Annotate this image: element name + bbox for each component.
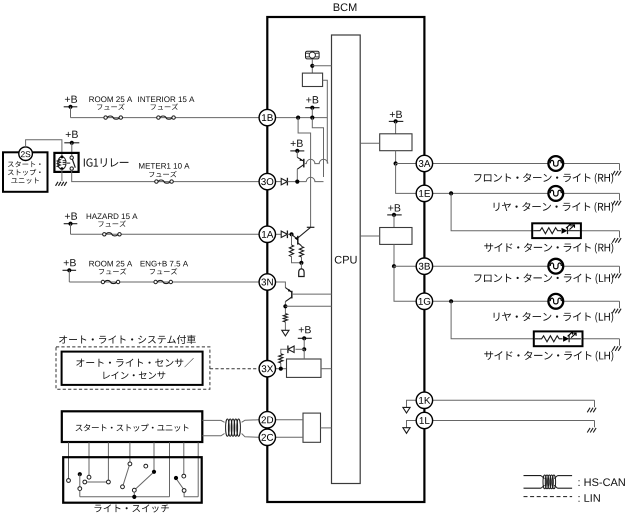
label rear turn RH (494, 202, 614, 213)
label fuse 3O (149, 171, 176, 177)
IG1 relay box (54, 153, 78, 172)
buzzer / sounder (299, 263, 304, 277)
label auto-light system (59, 335, 196, 344)
junction 1B-b (310, 116, 314, 120)
wire to 3O corner (312, 118, 323, 177)
label fuse 3N-1 (99, 268, 126, 274)
switch contact b1 (87, 475, 91, 479)
turn indicator icon (306, 51, 320, 59)
wire U5 to 3A (394, 151, 417, 166)
wire U6 to 3B (392, 244, 416, 268)
rear turn light RH (433, 186, 621, 205)
transistor Q1 (PNP) (297, 151, 304, 182)
auto-light sensor dashed box (56, 347, 210, 389)
switch contact a1 (67, 479, 71, 483)
junction R1-R2 (299, 261, 303, 265)
wire 1K right (433, 400, 596, 412)
junction 3X-a (296, 347, 307, 351)
connector 3B (416, 258, 432, 274)
connector 3X (259, 361, 275, 377)
power feed +B (row 1B) (64, 96, 78, 118)
driver block U2 (302, 73, 322, 86)
fuse METER1 10 A (139, 163, 189, 183)
fuse INTERIOR 15 A (138, 96, 194, 119)
wire CPU to U6 (360, 235, 380, 237)
wire 2C twisted pair (202, 434, 259, 438)
switch blade f (132, 470, 156, 497)
resistor R4 (279, 354, 283, 363)
switch pole b (closed) (78, 472, 82, 497)
connector 1E (416, 185, 432, 201)
auto-light sensor box (62, 352, 203, 385)
resistor R2 (299, 246, 303, 263)
CAN transceiver block U4 (303, 413, 321, 442)
wire to Q2 collector (298, 118, 311, 228)
switch blade g (174, 476, 186, 493)
wire row 3N internal (276, 282, 286, 288)
wire row 3X internal (276, 367, 287, 371)
connector 3A (416, 155, 432, 171)
wire U6 to 1G (394, 266, 416, 301)
wire 1L right (433, 421, 596, 433)
switch link c (83, 480, 110, 484)
switch contact g1 (182, 474, 186, 478)
wire relay to METER1 fuse (72, 170, 259, 181)
wire R4 to 3X (280, 363, 282, 369)
BCM module box (267, 3, 424, 502)
connector 1G (416, 293, 432, 309)
transistor Q2 (NPN) (292, 227, 315, 246)
side turn light LH (451, 301, 621, 351)
ground (IG1 relay coil) (56, 169, 67, 186)
wire row 1B internal (276, 117, 328, 119)
driver block U5 (380, 134, 412, 151)
wire CPU to U5 (360, 142, 380, 144)
signal ground 1K (403, 400, 416, 413)
front turn light RH (433, 156, 621, 175)
node under icon (310, 64, 331, 68)
connector 1K (416, 392, 432, 408)
fuse ROOM 25 A (89, 96, 132, 119)
power feed +B (row 1A) (64, 212, 78, 234)
diode D1 (281, 178, 287, 186)
light switch box (63, 457, 202, 503)
connector 3N (259, 274, 275, 290)
wire row 3N (69, 281, 259, 283)
wire U5 to 1E (396, 164, 417, 194)
dashed LIN wire to 3X (210, 368, 259, 370)
wire row 1B (71, 117, 260, 119)
resistor R3 (283, 314, 287, 322)
wire row 3O internal (276, 181, 282, 183)
wire 2D twisted pair (202, 420, 259, 423)
wire D3 to R4 (281, 349, 288, 354)
wire 2C internal (276, 436, 304, 438)
label HS-CAN (579, 478, 625, 486)
IG1 relay coil (57, 155, 66, 170)
hopover row 3O (306, 177, 323, 181)
wire row 1A (71, 233, 260, 235)
wire Q3 emitter node (283, 302, 331, 314)
label IG1 relay (84, 158, 129, 167)
fuse ENG+B 7.5 A (141, 261, 189, 284)
signal ground 1L (403, 421, 416, 434)
wire U2 out to base column (323, 80, 328, 163)
connector 1L (416, 412, 432, 428)
connector 3O (259, 173, 275, 189)
power feed +B (1B internal) (305, 96, 319, 117)
power feed +B (3X) (298, 326, 312, 349)
side turn LED box RH (532, 223, 581, 238)
legend LIN dashed (524, 496, 573, 498)
switch contact e (floating) (144, 464, 148, 468)
wire 2S to relay coil (26, 140, 62, 157)
power feed +B (U6) (387, 204, 402, 227)
wire D1 to junction (287, 180, 306, 184)
diode D2 (281, 230, 287, 238)
label LIN (579, 494, 600, 502)
switch blade d (121, 462, 132, 489)
CPU block (332, 35, 361, 484)
wire icon to node (311, 59, 313, 73)
junction 1B-a (296, 116, 300, 120)
label fuse 3N-2 (150, 268, 177, 274)
label rear turn LH (494, 312, 614, 323)
side turn light RH (451, 193, 621, 242)
power feed +B (IG1 relay) (64, 131, 79, 158)
sensor input block U3 (287, 349, 332, 377)
label light switch (95, 504, 169, 512)
connector 2S (19, 147, 33, 161)
wire U4 to CPU (321, 427, 332, 429)
fuse HAZARD 15 A (87, 213, 138, 236)
start-stop unit box (top) (3, 152, 48, 192)
wire 2D internal (276, 419, 304, 421)
rear turn light LH (433, 294, 621, 313)
fuse ROOM 25 A (row 3N) (89, 261, 132, 284)
wire row 1A internal (276, 233, 282, 235)
IG1 relay switch (67, 156, 75, 170)
connector 2C (259, 429, 275, 445)
transistor Q3 (285, 288, 331, 302)
legend HS-CAN symbol (524, 475, 573, 489)
power feed +B (U5) (389, 111, 404, 134)
twisted-pair coil (HS-CAN) (226, 419, 241, 436)
bus right (light switch) (184, 493, 198, 497)
label front turn RH (474, 173, 613, 184)
label front turn LH (474, 273, 613, 284)
start-stop unit box (bottom) (62, 411, 203, 442)
bottom bus (light switch) (80, 495, 170, 499)
label fuse 1A (98, 220, 125, 226)
driver block U6 (380, 228, 412, 245)
connector 1B (259, 109, 275, 125)
connector 1A (259, 226, 275, 242)
label fuse 1B-1 (97, 103, 124, 109)
label side turn LH (484, 351, 613, 362)
resistor R1 (289, 234, 301, 262)
label side turn RH (484, 243, 613, 254)
connector 2D (259, 412, 275, 428)
power feed +B (Q1) (290, 140, 304, 153)
base wire with hopovers (304, 159, 328, 163)
wires start-stop unit to light switch (69, 442, 199, 496)
diode D3 (288, 345, 294, 353)
side turn LED box LH (534, 331, 583, 346)
wire D2 to node (287, 232, 293, 236)
power feed +B (row 3N) (63, 259, 77, 282)
signal ground (3N) (282, 322, 289, 336)
front turn light LH (433, 259, 621, 278)
label fuse 1B-2 (151, 103, 178, 109)
